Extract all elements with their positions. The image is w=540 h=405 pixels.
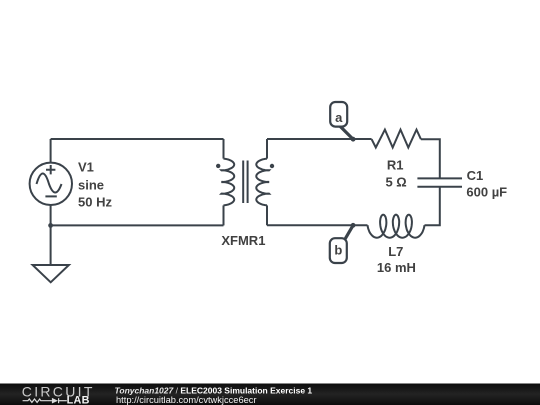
wire	[266, 139, 268, 159]
svg-text:600 µF: 600 µF	[466, 185, 507, 200]
wire	[50, 205, 52, 226]
wire	[223, 139, 225, 159]
ground	[33, 265, 69, 282]
inductor L7	[368, 215, 425, 238]
wire	[50, 225, 52, 265]
junction dot	[48, 223, 53, 228]
wire	[266, 205, 268, 225]
capacitor C1	[417, 178, 462, 186]
svg-text:V1: V1	[78, 159, 94, 174]
svg-text:XFMR1: XFMR1	[221, 233, 265, 248]
footer bar	[0, 384, 540, 405]
svg-text:LAB: LAB	[67, 395, 90, 405]
wire	[223, 205, 225, 225]
transformer XFMR1 primary phase dot	[216, 164, 220, 168]
svg-text:b: b	[334, 242, 342, 257]
node b flag	[330, 225, 353, 263]
node a flag	[330, 102, 353, 139]
wire	[51, 224, 224, 226]
resistor R1	[372, 130, 421, 148]
svg-text:16 mH: 16 mH	[377, 260, 416, 275]
svg-text:R1: R1	[387, 157, 404, 172]
wire	[50, 139, 52, 163]
wire	[51, 138, 224, 140]
transformer XFMR1 secondary winding	[256, 159, 269, 206]
voltage source V1	[30, 163, 72, 205]
svg-text:50 Hz: 50 Hz	[78, 194, 112, 209]
svg-text:a: a	[335, 110, 343, 125]
transformer XFMR1 core	[243, 161, 247, 204]
svg-text:5 Ω: 5 Ω	[385, 175, 406, 190]
junction dot node a	[351, 137, 356, 142]
svg-text:C1: C1	[467, 168, 484, 183]
wire	[267, 138, 372, 140]
svg-text:L7: L7	[388, 244, 403, 259]
CircuitLab logo wire with resistor and diode	[23, 398, 67, 403]
transformer XFMR1 secondary phase dot	[270, 164, 274, 168]
wire	[421, 139, 440, 178]
svg-text:http://circuitlab.com/cvtwkjcc: http://circuitlab.com/cvtwkjcce6ecr	[116, 395, 257, 405]
wire	[425, 187, 440, 226]
wire	[267, 224, 368, 226]
svg-text:sine: sine	[78, 178, 104, 193]
transformer XFMR1 primary winding	[221, 159, 234, 206]
junction dot node b	[351, 223, 356, 228]
CircuitLab logo diode triangle	[52, 398, 58, 404]
